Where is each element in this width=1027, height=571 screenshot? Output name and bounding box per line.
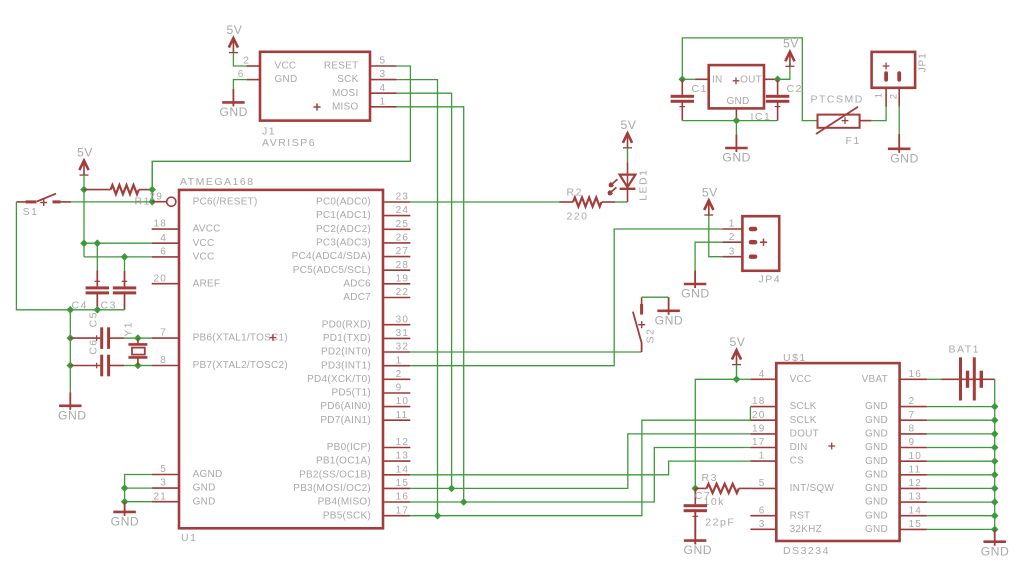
svg-text:12: 12 — [396, 437, 410, 448]
svg-text:18: 18 — [153, 219, 167, 230]
svg-text:21: 21 — [153, 491, 167, 502]
svg-text:1: 1 — [759, 451, 766, 462]
svg-text:PD7(AIN1): PD7(AIN1) — [320, 415, 371, 426]
svg-text:GND: GND — [865, 429, 888, 440]
svg-text:S2: S2 — [644, 328, 656, 344]
svg-text:3: 3 — [160, 478, 167, 489]
svg-text:OUT: OUT — [740, 74, 762, 85]
svg-text:VBAT: VBAT — [862, 374, 888, 385]
svg-text:9: 9 — [909, 437, 916, 448]
svg-text:17: 17 — [396, 505, 410, 516]
svg-text:GND: GND — [865, 497, 888, 508]
svg-text:17: 17 — [752, 437, 766, 448]
svg-text:22pF: 22pF — [705, 516, 735, 528]
svg-text:IN: IN — [712, 74, 723, 85]
svg-text:BAT1: BAT1 — [949, 343, 980, 355]
svg-text:GND: GND — [981, 544, 1010, 558]
svg-text:8: 8 — [160, 355, 167, 366]
svg-text:20: 20 — [153, 273, 167, 284]
svg-text:PB7(XTAL2/TOSC2): PB7(XTAL2/TOSC2) — [193, 360, 288, 371]
svg-text:1: 1 — [874, 93, 885, 98]
svg-text:DIN: DIN — [790, 442, 808, 453]
svg-text:32: 32 — [396, 342, 410, 353]
svg-text:5V: 5V — [621, 118, 637, 132]
svg-text:SCK: SCK — [337, 74, 358, 85]
svg-text:1: 1 — [380, 96, 387, 107]
svg-text:GND: GND — [865, 524, 888, 535]
svg-text:PD1(TXD): PD1(TXD) — [323, 333, 371, 344]
svg-text:VCC: VCC — [275, 61, 297, 72]
svg-text:PD3(INT1): PD3(INT1) — [321, 360, 371, 371]
svg-text:AREF: AREF — [193, 278, 221, 289]
svg-text:PD6(AIN0): PD6(AIN0) — [320, 401, 371, 412]
svg-text:C2: C2 — [787, 83, 803, 95]
svg-text:PC1(ADC1): PC1(ADC1) — [316, 210, 371, 221]
svg-text:SCLK: SCLK — [790, 401, 817, 412]
svg-text:AVRISP6: AVRISP6 — [262, 137, 316, 149]
svg-text:13: 13 — [396, 451, 410, 462]
svg-text:PD2(INT0): PD2(INT0) — [321, 347, 371, 358]
svg-text:GND: GND — [865, 415, 888, 426]
svg-text:GND: GND — [275, 74, 298, 85]
svg-text:GND: GND — [684, 543, 713, 557]
svg-text:PB0(ICP): PB0(ICP) — [327, 442, 371, 453]
svg-text:GND: GND — [655, 314, 684, 328]
svg-text:1: 1 — [396, 355, 403, 366]
svg-text:PD4(XCK/T0): PD4(XCK/T0) — [307, 374, 371, 385]
svg-text:1: 1 — [729, 219, 736, 230]
svg-text:VCC: VCC — [790, 374, 812, 385]
svg-text:7: 7 — [909, 410, 916, 421]
svg-text:16: 16 — [396, 492, 410, 503]
svg-text:GND: GND — [58, 409, 87, 423]
svg-text:PB2(SS/OC1B): PB2(SS/OC1B) — [299, 469, 371, 480]
svg-text:30: 30 — [396, 314, 410, 325]
svg-text:SCLK: SCLK — [790, 415, 817, 426]
svg-text:LED1: LED1 — [638, 169, 650, 201]
svg-text:2: 2 — [396, 369, 403, 380]
svg-text:CS: CS — [790, 456, 804, 467]
svg-text:18: 18 — [752, 396, 766, 407]
svg-text:J1: J1 — [262, 126, 276, 138]
svg-text:GND: GND — [865, 401, 888, 412]
svg-text:ATMEGA168: ATMEGA168 — [180, 176, 255, 188]
svg-text:4: 4 — [160, 233, 167, 244]
svg-text:32KHZ: 32KHZ — [790, 524, 822, 535]
svg-text:27: 27 — [396, 246, 410, 257]
svg-text:10: 10 — [909, 451, 923, 462]
svg-text:PD0(RXD): PD0(RXD) — [322, 319, 371, 330]
svg-text:220: 220 — [567, 210, 589, 222]
svg-text:RST: RST — [790, 510, 811, 521]
svg-text:31: 31 — [396, 328, 410, 339]
svg-text:VCC: VCC — [193, 238, 215, 249]
svg-text:3: 3 — [380, 69, 387, 80]
svg-text:GND: GND — [727, 96, 750, 107]
svg-text:GND: GND — [111, 515, 140, 529]
svg-text:PB1(OC1A): PB1(OC1A) — [316, 456, 371, 467]
svg-text:28: 28 — [396, 260, 410, 271]
svg-text:F1: F1 — [846, 135, 861, 147]
svg-text:5: 5 — [380, 56, 387, 67]
svg-text:19: 19 — [752, 424, 766, 435]
svg-text:24: 24 — [396, 205, 410, 216]
svg-text:PD5(T1): PD5(T1) — [331, 388, 371, 399]
svg-text:GND: GND — [865, 483, 888, 494]
svg-text:5V: 5V — [783, 37, 799, 51]
svg-text:INT/SQW: INT/SQW — [790, 483, 835, 494]
svg-text:7: 7 — [160, 328, 167, 339]
svg-text:DS3234: DS3234 — [783, 545, 830, 557]
svg-text:GND: GND — [865, 442, 888, 453]
svg-text:5V: 5V — [702, 185, 718, 199]
svg-text:6: 6 — [238, 69, 245, 80]
svg-text:PC6(/RESET): PC6(/RESET) — [193, 196, 258, 207]
svg-text:26: 26 — [396, 233, 410, 244]
svg-text:ADC7: ADC7 — [343, 292, 371, 303]
svg-text:GND: GND — [722, 151, 751, 165]
svg-text:GND: GND — [193, 496, 216, 507]
svg-text:11: 11 — [909, 464, 922, 475]
svg-text:6: 6 — [160, 247, 167, 258]
svg-text:9: 9 — [396, 383, 403, 394]
svg-text:2: 2 — [889, 94, 900, 99]
svg-text:5V: 5V — [730, 335, 746, 349]
svg-text:2: 2 — [909, 396, 916, 407]
svg-text:MOSI: MOSI — [332, 88, 359, 99]
svg-text:16: 16 — [909, 369, 923, 380]
svg-text:29: 29 — [149, 191, 163, 202]
svg-text:25: 25 — [396, 219, 410, 230]
svg-text:AVCC: AVCC — [193, 224, 221, 235]
svg-text:PB3(MOSI/OC2): PB3(MOSI/OC2) — [293, 483, 371, 494]
svg-text:5V: 5V — [77, 145, 93, 159]
svg-text:VCC: VCC — [193, 252, 215, 263]
svg-text:13: 13 — [909, 492, 923, 503]
svg-text:R2: R2 — [567, 186, 583, 198]
svg-text:3: 3 — [759, 519, 766, 530]
svg-text:Y1: Y1 — [123, 321, 135, 337]
svg-text:U1: U1 — [181, 532, 197, 544]
svg-text:GND: GND — [865, 456, 888, 467]
svg-text:23: 23 — [396, 192, 410, 203]
svg-text:S1: S1 — [23, 206, 39, 218]
svg-text:U$1: U$1 — [783, 352, 807, 364]
svg-text:2: 2 — [243, 56, 250, 67]
svg-text:14: 14 — [909, 505, 923, 516]
svg-text:PC3(ADC3): PC3(ADC3) — [316, 238, 371, 249]
svg-text:GND: GND — [193, 483, 216, 494]
svg-text:MISO: MISO — [332, 101, 359, 112]
svg-text:4: 4 — [380, 83, 387, 94]
svg-text:5: 5 — [759, 478, 766, 489]
svg-text:GND: GND — [890, 152, 919, 166]
svg-text:GND: GND — [865, 510, 888, 521]
svg-text:11: 11 — [396, 410, 409, 421]
svg-text:19: 19 — [396, 273, 410, 284]
svg-text:12: 12 — [909, 478, 923, 489]
svg-text:ADC6: ADC6 — [343, 278, 371, 289]
svg-text:GND: GND — [219, 105, 248, 119]
svg-text:DOUT: DOUT — [790, 429, 819, 440]
svg-text:4: 4 — [759, 369, 766, 380]
svg-text:JP4: JP4 — [759, 274, 782, 286]
svg-text:6: 6 — [759, 505, 766, 516]
svg-text:PC0(ADC0): PC0(ADC0) — [316, 197, 371, 208]
svg-text:RESET: RESET — [324, 61, 359, 72]
svg-text:PC5(ADC5/SCL): PC5(ADC5/SCL) — [293, 265, 371, 276]
svg-text:8: 8 — [909, 424, 916, 435]
svg-text:PTCSMD: PTCSMD — [811, 93, 864, 105]
svg-text:PC2(ADC2): PC2(ADC2) — [316, 224, 371, 235]
svg-text:C5: C5 — [88, 311, 100, 327]
svg-text:GND: GND — [865, 469, 888, 480]
svg-text:15: 15 — [396, 478, 410, 489]
svg-text:10: 10 — [396, 396, 410, 407]
svg-text:5: 5 — [160, 464, 167, 475]
svg-text:C6: C6 — [88, 338, 100, 354]
svg-text:5V: 5V — [226, 23, 242, 37]
svg-text:15: 15 — [909, 519, 923, 530]
svg-text:3: 3 — [729, 246, 736, 257]
svg-text:R3: R3 — [702, 472, 718, 484]
svg-text:PC4(ADC4/SDA): PC4(ADC4/SDA) — [292, 251, 371, 262]
svg-text:PB4(MISO): PB4(MISO) — [318, 497, 371, 508]
svg-text:14: 14 — [396, 464, 410, 475]
svg-text:22: 22 — [396, 287, 410, 298]
svg-text:AGND: AGND — [193, 469, 223, 480]
svg-text:20: 20 — [752, 410, 766, 421]
svg-text:C1: C1 — [692, 83, 708, 95]
svg-text:2: 2 — [729, 232, 736, 243]
svg-text:C7: C7 — [695, 490, 711, 502]
svg-text:JP1: JP1 — [918, 52, 929, 72]
svg-text:PB5(SCK): PB5(SCK) — [323, 510, 371, 521]
svg-text:GND: GND — [681, 287, 710, 301]
